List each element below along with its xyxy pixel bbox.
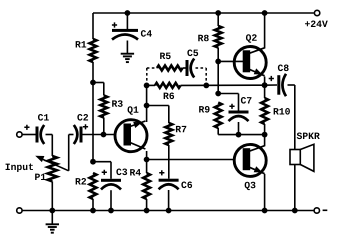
wire speaker to ground rail — [294, 165, 296, 211]
capacitor C5 — [183, 67, 186, 69]
resistor R10 — [264, 85, 266, 98]
node C7/R9 bottom — [236, 132, 242, 138]
resistor R5 — [157, 66, 183, 71]
wire input to C1 — [22, 134, 35, 136]
node R7 tee — [144, 103, 150, 109]
capacitor C1 — [24, 125, 29, 130]
resistor R3 — [100, 95, 107, 117]
node C6 ground — [166, 208, 172, 214]
wire dashed R5/C5 branch left — [147, 67, 157, 69]
potentiometer P1 — [48, 156, 57, 181]
transistor Q2 — [234, 47, 266, 79]
wire C3 tee — [93, 161, 111, 163]
node R4 ground — [144, 208, 150, 214]
wire P1 bottom to ground rail — [51, 181, 53, 210]
resistor R4 — [146, 160, 148, 174]
node R3/base junction — [101, 132, 107, 138]
node R10 bottom — [262, 132, 268, 138]
resistor R9 — [215, 103, 222, 129]
capacitor C3 — [101, 179, 121, 182]
+24V terminal — [314, 10, 319, 15]
resistor R8 — [215, 26, 222, 48]
node speaker ground — [292, 208, 298, 214]
output terminal right — [314, 208, 319, 213]
wire C8 to speaker column — [288, 84, 295, 86]
transistor Q1 — [115, 120, 147, 152]
node Q3 emitter ground — [262, 208, 268, 214]
node R2 ground — [90, 208, 96, 214]
node R8 top — [215, 10, 221, 16]
wire R8 bottom / Q2 base column — [217, 48, 219, 94]
ground terminal left — [17, 208, 22, 213]
wire wiper to C2 — [68, 135, 70, 171]
resistor R2 — [90, 173, 97, 199]
resistor R1 — [90, 39, 97, 62]
node R1/R3/R2 junction — [90, 80, 96, 86]
capacitor C2 — [80, 127, 83, 143]
wire R7 tee — [147, 105, 169, 107]
wire R9 bottom bend — [217, 128, 219, 135]
wire C7 bottom — [238, 122, 240, 135]
ground under C4 — [121, 53, 134, 55]
wire dashed C5 to right node — [196, 67, 207, 69]
input terminal — [17, 132, 22, 137]
speaker cone — [300, 144, 314, 171]
node output / C8 — [262, 82, 268, 88]
node R6 left / emitter — [144, 83, 150, 89]
wire Q1 emitter up — [146, 85, 148, 122]
wire Q1 collector down — [146, 151, 148, 160]
minus mark — [323, 209, 328, 211]
node Q1 collector / R4 / Q3 base row — [144, 157, 150, 163]
node C3 ground — [108, 208, 114, 214]
wire to Q2 base — [218, 60, 243, 62]
P1 wiper arrow — [35, 156, 44, 162]
wire C2 to Q1 base — [83, 134, 115, 136]
wire Q3 emitter to ground rail — [264, 174, 266, 211]
wire Q2 collector to rail — [264, 13, 266, 49]
wire R2 bottom to ground rail — [92, 199, 94, 211]
wire left column R1 top lead — [92, 13, 94, 39]
capacitor C8 — [265, 84, 277, 86]
speaker box — [290, 150, 300, 165]
wire R7 bottom to C6 (crosses row) — [168, 145, 170, 179]
capacitor C7 — [229, 111, 249, 114]
wire Q3 collector up — [264, 135, 266, 147]
wire C7 top bend — [218, 93, 238, 95]
wire C6 bottom to ground rail — [168, 190, 170, 211]
transistor Q3 — [234, 144, 266, 176]
wire R3 top bend — [93, 82, 104, 84]
wire Q2 emitter down — [264, 77, 266, 86]
node R9 top — [215, 91, 221, 97]
ground symbol main — [51, 211, 53, 225]
wire C1 to P1 column — [46, 134, 53, 136]
node C4 top — [125, 10, 131, 16]
wire bottom ground rail — [22, 210, 314, 212]
wire down left column to R2 (crosses base wire) — [92, 83, 94, 162]
wire R1 bottom to junction — [92, 62, 94, 83]
wire C4 bottom lead — [126, 41, 128, 54]
resistor R6 — [155, 83, 181, 88]
capacitor C6 — [159, 179, 179, 182]
node Q2 base tee — [215, 59, 221, 65]
wire R3 bottom to base node — [103, 118, 105, 135]
node R6 right / C5 — [203, 83, 209, 89]
wire row to Q3 base — [147, 159, 236, 161]
wire C4 top lead — [126, 13, 128, 29]
resistor R7 — [165, 123, 172, 145]
node Q2 collector rail — [262, 10, 268, 16]
speaker SPKR — [297, 133, 320, 140]
node R2/C3 junction — [90, 159, 96, 165]
wire R6 row — [147, 84, 155, 86]
wire dashed verticals — [146, 68, 148, 82]
node P1 ground — [49, 208, 55, 214]
capacitor C4 — [112, 29, 138, 32]
wire top supply rail — [93, 12, 314, 14]
